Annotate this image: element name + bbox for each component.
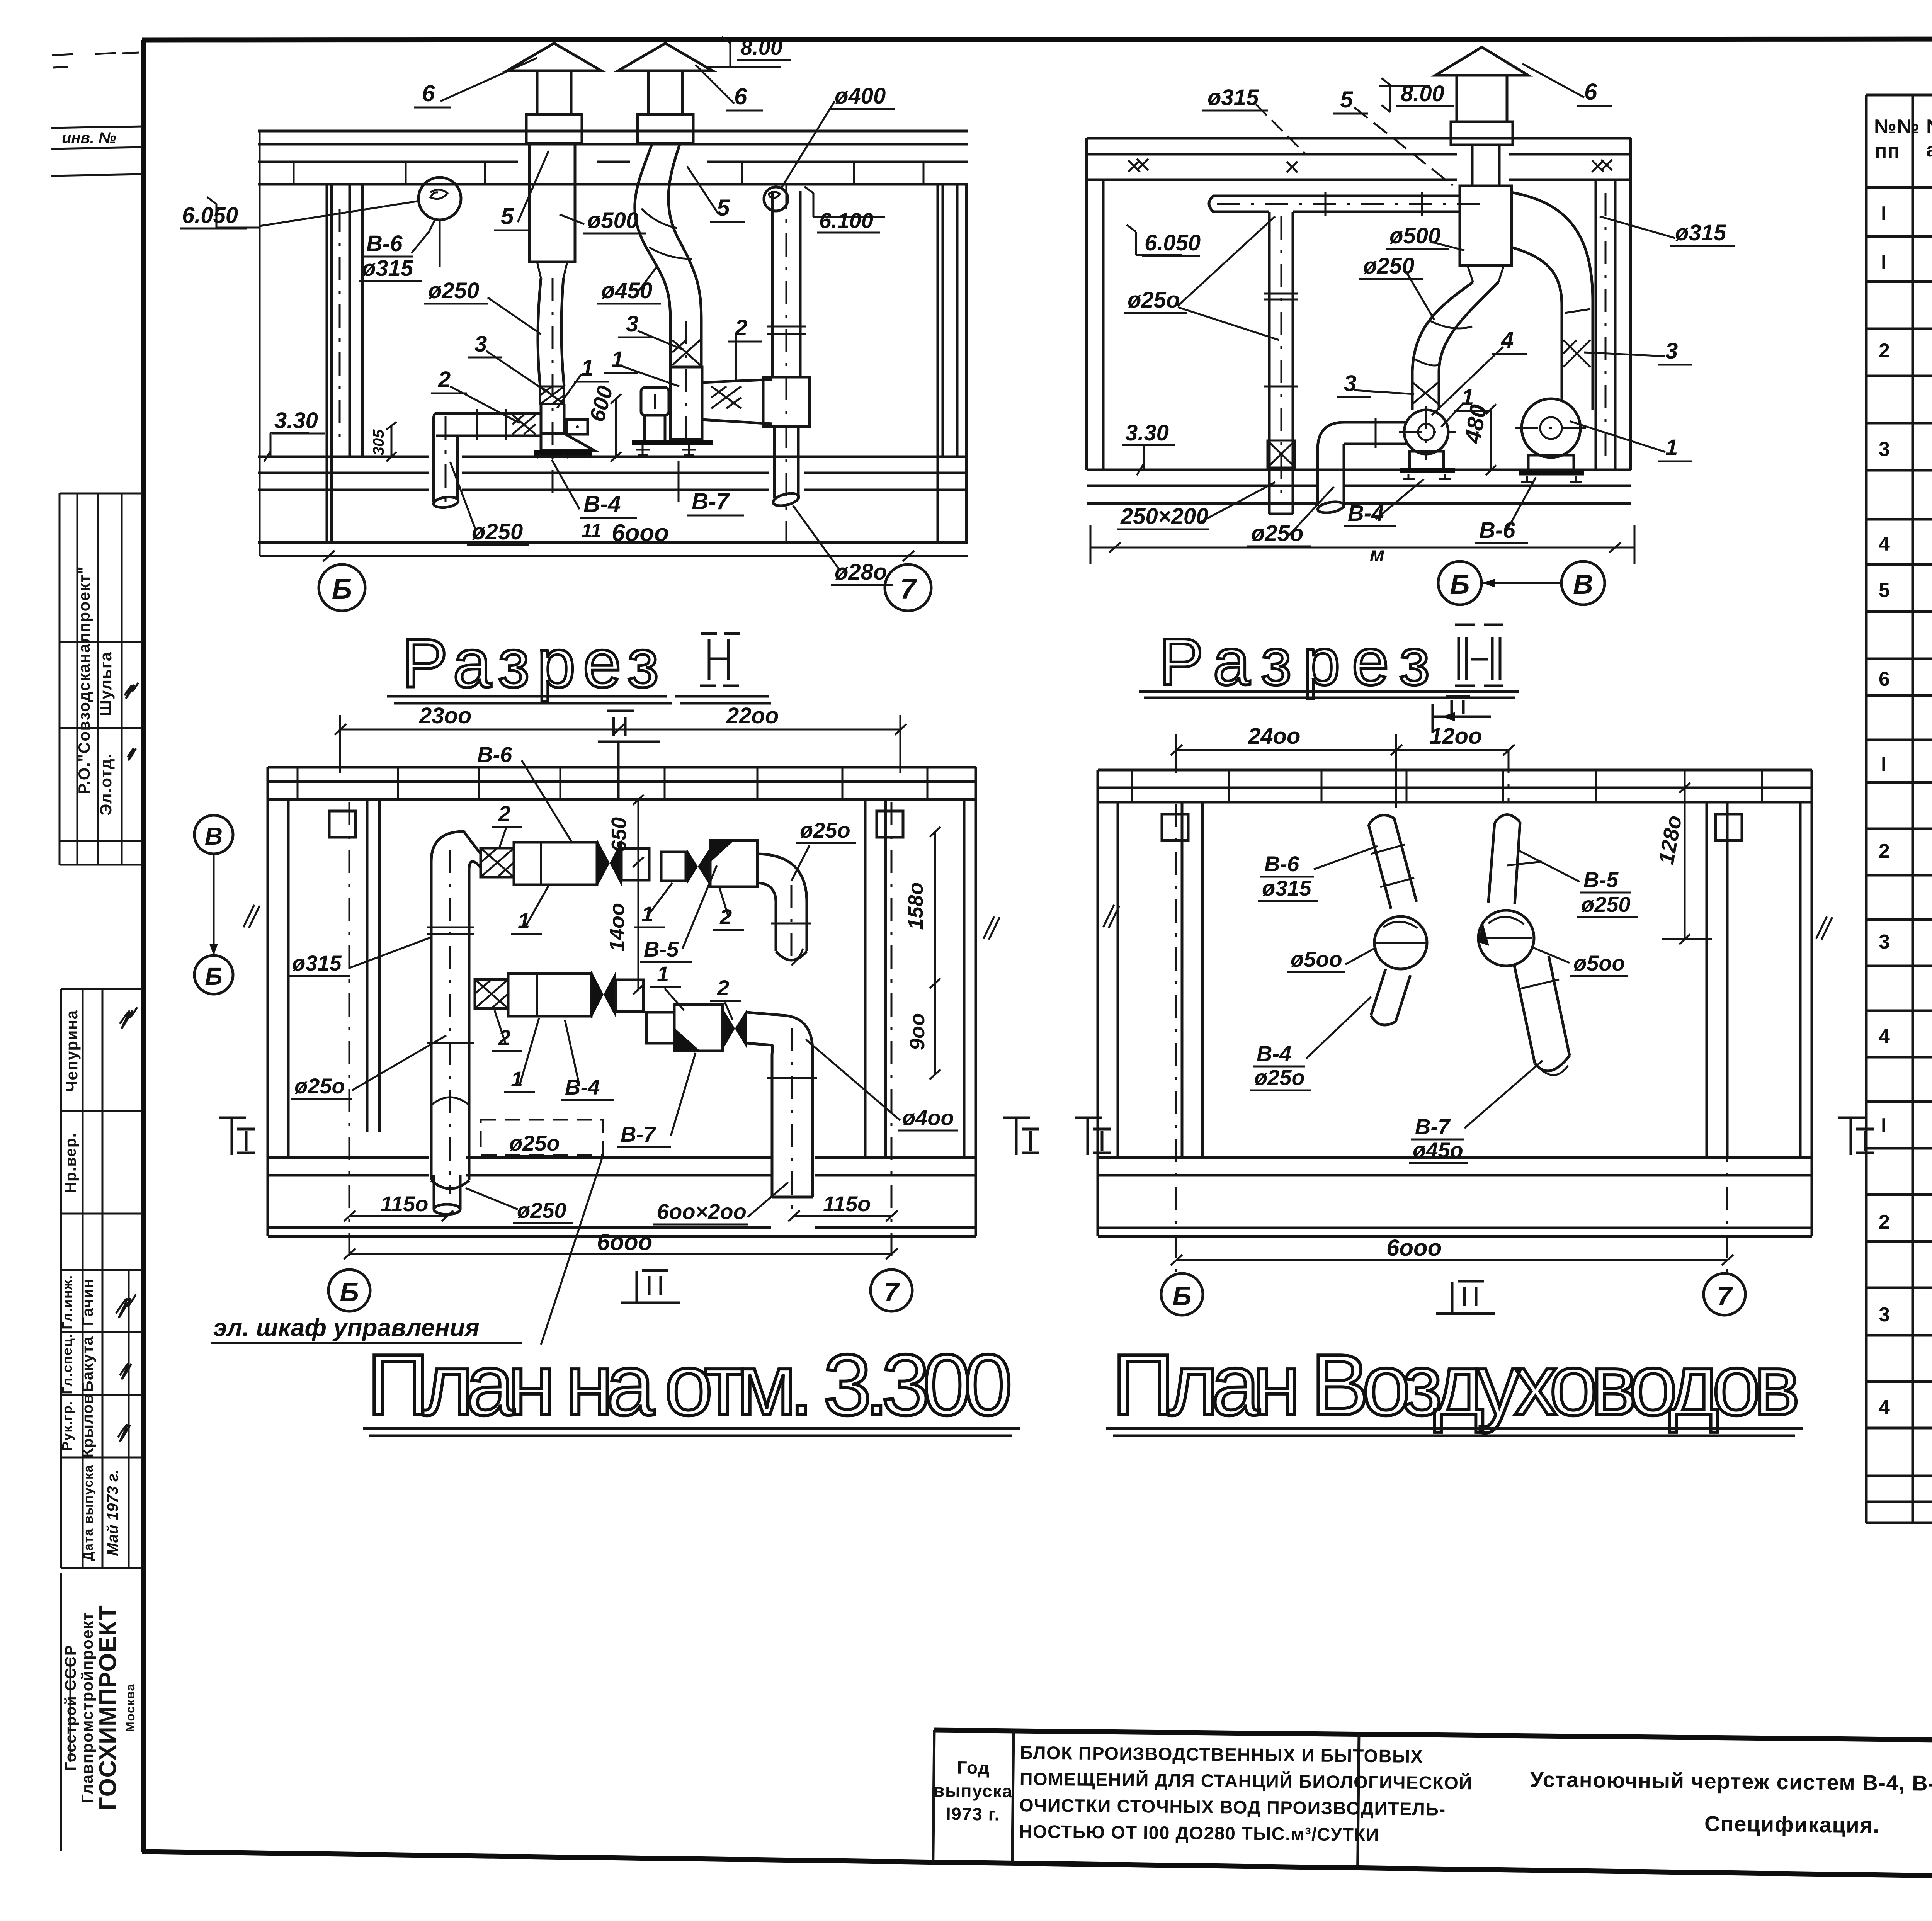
dim 480	[1459, 403, 1496, 475]
svg-text:В-7: В-7	[621, 1122, 656, 1146]
duct V-5 / V-7 with fan	[1478, 814, 1570, 1075]
svg-text:650: 650	[607, 817, 631, 852]
fan cluster V-5 with elbow right	[661, 840, 811, 965]
svg-text:Шульга: Шульга	[97, 651, 115, 716]
svg-text:В-4: В-4	[565, 1075, 600, 1099]
flex insert hatch (3)	[540, 386, 564, 404]
svg-text:22оо: 22оо	[726, 703, 779, 728]
svg-text:ø45о: ø45о	[1413, 1138, 1463, 1162]
svg-text:3: 3	[1879, 931, 1890, 953]
svg-text:7: 7	[884, 1277, 900, 1307]
svg-text:6.050: 6.050	[1145, 230, 1201, 255]
svg-text:128о: 128о	[1654, 813, 1686, 866]
tee box on right stack	[763, 377, 810, 427]
svg-text:2: 2	[498, 801, 510, 826]
svg-text:ø5оо: ø5оо	[1291, 947, 1342, 971]
svg-text:Дата выпуска: Дата выпуска	[81, 1464, 96, 1561]
svg-text:ø25о: ø25о	[1254, 1065, 1305, 1090]
horizontal duct left of fan	[1344, 421, 1406, 424]
svg-text:6: 6	[1584, 79, 1597, 105]
svg-text:ø25о: ø25о	[509, 1131, 560, 1155]
right stack f400 vertical	[771, 191, 774, 377]
grid bubbles	[328, 1270, 370, 1311]
specification table grid	[1866, 95, 1932, 1523]
floor lines	[258, 456, 429, 458]
duct through roof	[1471, 145, 1474, 186]
svg-text:1: 1	[641, 902, 653, 926]
svg-text:I: I	[1881, 202, 1887, 225]
svg-text:м: м	[1370, 543, 1384, 566]
svg-text:6: 6	[734, 83, 747, 109]
table header text	[1874, 110, 1932, 184]
bottom title block	[933, 1730, 1932, 1878]
ceiling duct f315 horizontal	[1213, 195, 1460, 197]
svg-text:Б: Б	[1450, 569, 1470, 600]
left margin stamp: GOSKHIMPROEKT	[61, 1572, 137, 1851]
bottom walls	[1098, 1156, 1812, 1159]
svg-text:В-5: В-5	[644, 937, 679, 961]
left margin stamp: inv no	[51, 53, 142, 176]
svg-text:ø315: ø315	[1262, 876, 1311, 900]
stack 2: s-curve duct f450 from roof box	[635, 143, 670, 321]
svg-text:План на отм. 3.300: План на отм. 3.300	[367, 1336, 1012, 1433]
table body text	[1879, 202, 1932, 1430]
svg-text:1: 1	[657, 962, 669, 986]
dim 305	[370, 422, 396, 461]
svg-text:3: 3	[1344, 371, 1356, 396]
level mark 6.050	[180, 197, 419, 228]
svg-text:В-4: В-4	[583, 491, 621, 517]
svg-text:выпуска: выпуска	[934, 1780, 1013, 1801]
svg-text:3: 3	[1879, 1304, 1890, 1326]
svg-text:2: 2	[1879, 840, 1890, 862]
roof vent cap	[1435, 47, 1528, 75]
svg-text:Р.О."Совзодсканалпроект": Р.О."Совзодсканалпроект"	[75, 566, 93, 794]
dashed cabinet rect	[481, 1120, 603, 1155]
column stubs	[329, 811, 355, 837]
svg-text:Б: Б	[340, 1277, 359, 1307]
section marks T/I on sides	[219, 1118, 255, 1155]
fan V-4 base shoe	[541, 433, 594, 450]
svg-text:БЛОК ПРОИЗВОДСТВЕННЫХ И БЫТ: БЛОК ПРОИЗВОДСТВЕННЫХ И БЫТОВЫХ	[1020, 1742, 1423, 1766]
svg-text:11: 11	[582, 520, 602, 541]
svg-text:7: 7	[900, 573, 917, 605]
wall break marks	[1103, 905, 1119, 928]
svg-text:В-6: В-6	[477, 742, 512, 767]
basement floor line	[258, 541, 968, 544]
svg-text:3: 3	[474, 331, 487, 357]
svg-text:ø250: ø250	[517, 1198, 566, 1222]
roof brick band	[258, 161, 518, 163]
grid bubbles	[319, 564, 365, 611]
svg-text:4: 4	[1501, 328, 1514, 353]
grid bubbles	[1161, 1273, 1203, 1315]
svg-text:6ооо: 6ооо	[1386, 1235, 1442, 1261]
svg-text:ø250: ø250	[472, 519, 523, 544]
svg-text:В-7: В-7	[692, 488, 730, 514]
svg-text:ø315: ø315	[1675, 220, 1726, 245]
svg-text:Нр.вер.: Нр.вер.	[62, 1133, 79, 1193]
bottom main dim 6000	[349, 1253, 891, 1255]
svg-text:ПОМЕЩЕНИЙ ДЛЯ СТАНЦИЙ БИОЛОГИЧ: ПОМЕЩЕНИЙ ДЛЯ СТАНЦИЙ БИОЛОГИЧЕСКОЙ	[1020, 1768, 1473, 1793]
outer top wall with brick band	[268, 766, 976, 769]
svg-text:23оо: 23оо	[419, 703, 471, 728]
svg-text:ø400: ø400	[835, 83, 886, 109]
svg-text:I: I	[1881, 251, 1887, 273]
svg-text:ø500: ø500	[1389, 223, 1440, 248]
svg-text:Крылов: Крылов	[79, 1394, 96, 1458]
extension line	[1508, 750, 1510, 802]
svg-text:Разрез: Разрез	[402, 625, 659, 702]
svg-text:№ типового: № типового	[1926, 116, 1932, 138]
svg-text:1: 1	[611, 347, 624, 372]
fan V-4 scroll	[1404, 410, 1448, 454]
svg-text:3.30: 3.30	[1125, 420, 1169, 445]
svg-text:I: I	[1881, 753, 1887, 775]
svg-text:2: 2	[1879, 340, 1890, 362]
svg-text:9оо: 9оо	[906, 1013, 929, 1050]
svg-text:Май 1973 г.: Май 1973 г.	[104, 1469, 121, 1556]
svg-text:Устаноючный чертеж систем В-4,: Устаноючный чертеж систем В-4, В-5, В-6,…	[1530, 1767, 1932, 1797]
table row lines	[1866, 236, 1932, 1502]
svg-text:НОСТЬЮ ОТ I00 ДО280 ТЫС.м³: НОСТЬЮ ОТ I00 ДО280 ТЫС.м³/СУТКИ	[1019, 1821, 1379, 1845]
svg-text:6ооо: 6ооо	[612, 520, 669, 546]
svg-text:Б: Б	[332, 573, 352, 605]
svg-text:пп: пп	[1875, 140, 1900, 162]
svg-text:В: В	[1573, 569, 1593, 600]
svg-text:ø28о: ø28о	[835, 559, 887, 585]
svg-text:1: 1	[581, 355, 594, 381]
horizontal suction duct	[436, 412, 541, 415]
svg-text:Разрез: Разрез	[1159, 625, 1430, 699]
svg-text:5: 5	[1879, 579, 1890, 602]
right vertical dims	[638, 799, 639, 989]
svg-text:Рук.гр.: Рук.гр.	[59, 1401, 75, 1451]
svg-text:ГОСХИМПРОЕКТ: ГОСХИМПРОЕКТ	[95, 1605, 121, 1810]
roof slab lines	[258, 130, 968, 133]
walls	[1085, 138, 1088, 470]
svg-text:6: 6	[1879, 668, 1890, 690]
top dims 2400 / 1200	[1176, 749, 1509, 751]
section mark II bottom	[621, 1270, 680, 1303]
section mark II bottom	[1436, 1281, 1495, 1314]
level 8.00 top	[1379, 78, 1454, 112]
level 6.100 right	[804, 187, 885, 233]
svg-text:3: 3	[626, 311, 638, 337]
floor	[1087, 469, 1631, 471]
bottom dimension line	[1090, 547, 1634, 549]
svg-text:158о: 158о	[904, 882, 927, 930]
svg-text:ø5оо: ø5оо	[1573, 951, 1625, 975]
svg-text:2: 2	[1879, 1211, 1890, 1233]
svg-text:3: 3	[1665, 338, 1678, 364]
svg-text:Б: Б	[1172, 1281, 1192, 1311]
right wall columns	[937, 184, 939, 542]
svg-text:ø315: ø315	[1207, 85, 1259, 110]
feet	[636, 445, 650, 455]
fan V-6 scroll big	[1522, 399, 1580, 457]
left wall columns	[326, 184, 328, 542]
elbow down through floor	[1318, 422, 1344, 506]
svg-text:альбома или: альбома или	[1926, 139, 1932, 161]
svg-text:В-6: В-6	[1479, 518, 1515, 543]
svg-text:В-4: В-4	[1348, 501, 1384, 526]
svg-text:План Воздуховодов: План Воздуховодов	[1112, 1336, 1800, 1433]
svg-text:Б: Б	[205, 962, 222, 990]
svg-text:6ооо: 6ооо	[597, 1229, 652, 1255]
roof slab lines	[1087, 137, 1631, 140]
fan cluster V-7 with duct down	[646, 1005, 817, 1209]
level mark 3.30	[264, 408, 325, 462]
duct stub below floor (250x200)	[1268, 468, 1271, 514]
dim 600	[585, 383, 621, 462]
svg-text:инв. №: инв. №	[62, 129, 116, 146]
circle symbol V-6 f315	[418, 177, 461, 220]
fan cluster V-6	[481, 839, 649, 887]
fan V-7 casing	[670, 367, 702, 439]
svg-text:115о: 115о	[823, 1192, 871, 1216]
svg-text:Гл.спец.: Гл.спец.	[59, 1333, 75, 1394]
svg-text:Спецификация.: Спецификация.	[1704, 1811, 1880, 1837]
flex hatch on stack 2	[672, 340, 700, 365]
walls	[1097, 770, 1099, 1236]
svg-text:ОЧИСТКИ СТОЧНЫХ ВОД ПРОИЗВО: ОЧИСТКИ СТОЧНЫХ ВОД ПРОИЗВОДИТЕЛЬ-	[1019, 1795, 1446, 1819]
partitions	[366, 799, 369, 1132]
roof vent cap 1 (zont T-5)	[507, 43, 601, 71]
svg-text:6.100: 6.100	[819, 208, 873, 233]
flex hatch on duct	[1413, 382, 1438, 404]
bottom small dims	[349, 1215, 447, 1217]
svg-text:I: I	[1881, 1114, 1887, 1137]
svg-text:305: 305	[370, 429, 387, 455]
svg-text:6оо×2оо: 6оо×2оо	[657, 1199, 747, 1224]
bottom dim 6000	[1176, 1259, 1727, 1261]
right wall	[963, 799, 966, 1158]
svg-text:ø500: ø500	[587, 208, 638, 233]
svg-text:4: 4	[1879, 1396, 1890, 1419]
stack 1 vertical duct f250	[538, 278, 541, 386]
silencer box f500	[1460, 186, 1512, 265]
svg-text:ø250: ø250	[1363, 253, 1414, 279]
svg-text:В-5: В-5	[1583, 867, 1619, 892]
duct up from V-6 curving to box	[1512, 192, 1593, 410]
svg-text:В: В	[205, 822, 223, 850]
left dimension vertical	[259, 131, 261, 556]
duct to fan	[540, 404, 543, 433]
svg-text:2: 2	[438, 367, 451, 392]
svg-text:№№: №№	[1874, 116, 1920, 138]
svg-text:Гачин: Гачин	[79, 1278, 96, 1326]
svg-text:ø250: ø250	[428, 278, 479, 303]
svg-text:ø25о: ø25о	[1251, 521, 1303, 546]
left margin stamp: signatures (lower)	[59, 989, 142, 1568]
svg-text:ø315: ø315	[292, 951, 342, 975]
svg-text:3.30: 3.30	[274, 408, 318, 433]
svg-text:В-6: В-6	[366, 231, 403, 256]
grid bubbles with arrow	[1438, 561, 1481, 605]
svg-text:5: 5	[717, 195, 730, 221]
svg-text:Москва: Москва	[123, 1683, 137, 1732]
level 8.00 top right	[708, 35, 791, 67]
svg-text:1: 1	[1665, 435, 1678, 460]
svg-text:Главпромстройпроект: Главпромстройпроект	[78, 1612, 96, 1803]
svg-text:8.00: 8.00	[740, 35, 782, 59]
svg-text:5: 5	[1340, 87, 1354, 112]
shutter box (4)	[567, 420, 588, 434]
svg-text:В-7: В-7	[1415, 1114, 1451, 1139]
left wall	[267, 767, 269, 1236]
bottom dimension	[260, 555, 968, 557]
right wall inner columns	[1595, 180, 1597, 470]
svg-text:24оо: 24оо	[1248, 724, 1300, 749]
svg-text:600: 600	[585, 383, 617, 425]
svg-text:В-6: В-6	[1264, 852, 1299, 876]
section marks T/I on sides	[1075, 1118, 1111, 1155]
svg-text:4: 4	[1879, 533, 1890, 555]
roof hatch marks	[1128, 159, 1612, 172]
level mark 6.050	[1127, 225, 1201, 256]
stack 1: silencer box f500	[529, 143, 575, 262]
svg-text:Гл.инж.: Гл.инж.	[59, 1275, 75, 1329]
motor V-7	[641, 388, 669, 415]
svg-text:В-4: В-4	[1257, 1041, 1291, 1066]
svg-text:7: 7	[1717, 1281, 1733, 1311]
top dimension	[340, 729, 900, 731]
svg-text:4: 4	[1879, 1025, 1890, 1048]
dim 1280 right	[1638, 787, 1777, 789]
level mark 3.30	[1122, 420, 1175, 475]
V-7 outlet duct right with flex hatch	[702, 379, 772, 382]
svg-text:115о: 115о	[381, 1192, 428, 1216]
vertical duct f315	[427, 831, 481, 1214]
svg-text:6.050: 6.050	[182, 203, 238, 228]
fan cluster V-4	[475, 971, 643, 1018]
svg-text:ø250: ø250	[1581, 892, 1631, 916]
elbow down through floor	[434, 413, 436, 502]
svg-text:14оо: 14оо	[605, 903, 629, 952]
svg-text:Бакута: Бакута	[79, 1336, 96, 1392]
flex hatch (2) on horizontal duct	[512, 415, 536, 434]
svg-text:3: 3	[1879, 438, 1890, 461]
svg-text:ø4оо: ø4оо	[902, 1105, 954, 1130]
svg-text:Год: Год	[957, 1758, 990, 1778]
svg-text:ø25о: ø25о	[294, 1074, 345, 1098]
outer top wall with brick band	[1098, 769, 1812, 772]
svg-text:Эл.отд.: Эл.отд.	[97, 753, 115, 816]
duct V-6 diagonal with fan	[1369, 815, 1427, 1025]
roof vent cap 2	[618, 43, 713, 71]
flex connector circle at top of right stack	[764, 187, 788, 211]
section mark II top	[598, 711, 660, 799]
svg-text:ø25о: ø25о	[800, 818, 850, 842]
column stubs	[1162, 814, 1188, 840]
svg-text:I973 г.: I973 г.	[946, 1804, 1000, 1824]
bottom walls	[268, 1156, 429, 1159]
svg-text:250×200: 250×200	[1120, 504, 1208, 529]
svg-text:5: 5	[501, 203, 514, 229]
svg-text:ø25о: ø25о	[1128, 287, 1180, 313]
left vertical duct f250 down to grille	[1268, 212, 1271, 468]
svg-text:1: 1	[1461, 385, 1474, 410]
svg-text:6: 6	[422, 80, 435, 106]
svg-text:2: 2	[717, 976, 729, 1000]
left margin stamp: org approvals (middle)	[60, 493, 142, 865]
left grid bubbles	[194, 815, 233, 854]
s-curve duct to fan V-4	[1412, 282, 1473, 410]
svg-text:ø315: ø315	[362, 256, 413, 281]
svg-text:12оо: 12оо	[1430, 724, 1482, 749]
svg-text:Чепурина: Чепурина	[63, 1010, 81, 1092]
